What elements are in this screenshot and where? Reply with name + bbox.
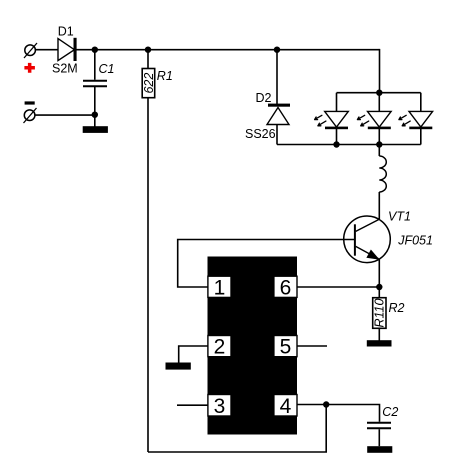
inductor L1 [379, 145, 386, 220]
terminal minus input [24, 108, 37, 123]
pin 6 [274, 276, 297, 299]
svg-text:D1: D1 [58, 24, 74, 38]
svg-text:D2: D2 [256, 91, 272, 105]
svg-text:3: 3 [214, 395, 226, 418]
wire minus rail [35, 114, 95, 116]
node A junction D1/C1 [92, 47, 98, 53]
pin 3 [208, 395, 231, 418]
svg-text:2: 2 [214, 336, 226, 359]
wire pin 3 stub [177, 404, 208, 406]
svg-text:6: 6 [280, 276, 292, 299]
svg-text:C1: C1 [99, 62, 115, 76]
minus polarity mark [25, 101, 35, 104]
wire pin 5 stub [297, 345, 327, 347]
transistor VT1 [344, 216, 391, 263]
pin 1 [208, 276, 231, 299]
wire R1 bottom to pin4 node [148, 405, 326, 453]
wire top rail [36, 49, 380, 51]
svg-text:R2: R2 [389, 301, 405, 315]
svg-text:SS26: SS26 [245, 127, 276, 141]
wire pin 4 to C2 [297, 405, 380, 422]
node C junction D2 top [274, 47, 280, 53]
wire LED top bus [337, 92, 421, 94]
ground under C2 [367, 446, 392, 453]
diode D2 [267, 50, 290, 145]
node I junction pin 4 [323, 401, 329, 407]
wire pin 2 to ground [179, 346, 208, 363]
diode D1 [58, 38, 77, 61]
wire LED bottom bus [277, 144, 421, 146]
svg-text:C2: C2 [382, 405, 398, 419]
wire pin 6 to emitter node [297, 286, 379, 288]
resistor R1 [142, 50, 156, 452]
svg-text:622: 622 [142, 73, 156, 94]
capacitor C1 [83, 50, 107, 115]
svg-text:R1: R1 [157, 69, 173, 83]
wire base from pin 1 [178, 240, 355, 288]
ground under pin 2 [166, 363, 191, 370]
pin 4 [274, 395, 297, 418]
plus polarity mark [24, 63, 35, 73]
capacitor C2 [367, 423, 391, 446]
node F junction bottom bus left [333, 141, 339, 147]
ground under R2 [367, 340, 392, 346]
terminal plus input [24, 43, 37, 58]
node E junction top bus [376, 90, 382, 96]
node H emitter junction [376, 284, 382, 290]
LED HL2 [357, 93, 391, 145]
wire C1 to ground [94, 115, 96, 127]
IC U1 body [208, 257, 298, 435]
LED HL3 [399, 93, 433, 145]
svg-text:S2M: S2M [52, 61, 78, 75]
node G junction bottom bus mid [376, 141, 382, 147]
pin 5 [274, 336, 297, 359]
resistor R2 [373, 287, 387, 341]
LED HL1 [315, 93, 349, 145]
wire emitter down [378, 259, 380, 287]
svg-text:5: 5 [280, 336, 292, 359]
svg-text:R110: R110 [373, 298, 387, 327]
pin 2 [208, 336, 231, 359]
ground under C1 [83, 126, 108, 133]
node B junction R1 top [145, 47, 151, 53]
svg-text:VT1: VT1 [388, 209, 411, 223]
svg-text:1: 1 [214, 276, 226, 299]
node D junction C1 bottom [92, 112, 98, 118]
svg-text:4: 4 [280, 395, 292, 418]
wire right drop to LED bus [379, 49, 381, 93]
svg-text:JF051: JF051 [397, 234, 433, 248]
